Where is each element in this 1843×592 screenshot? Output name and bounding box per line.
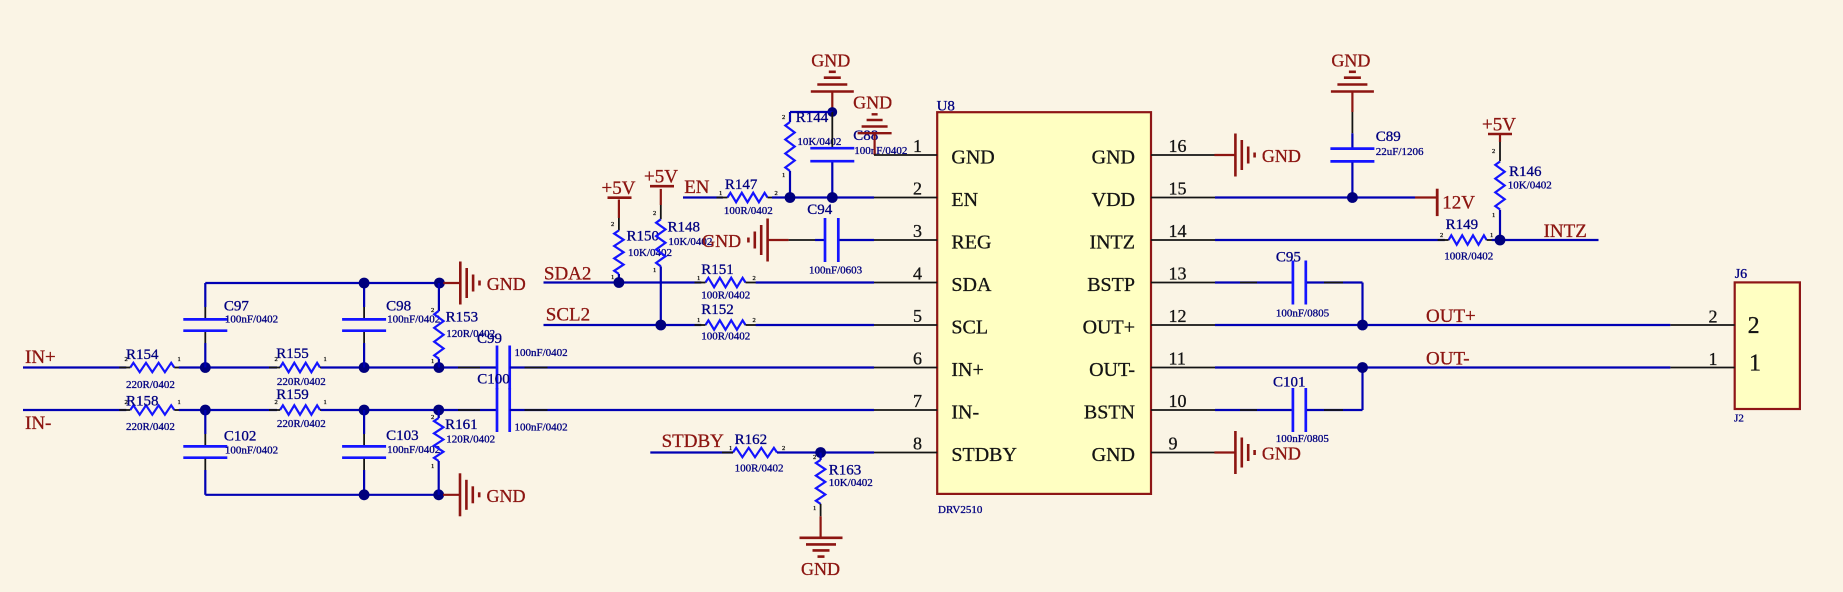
svg-text:R146: R146 xyxy=(1509,164,1542,180)
svg-text:GND: GND xyxy=(487,274,526,294)
wire INTZ right xyxy=(1492,239,1599,241)
svg-text:100R/0402: 100R/0402 xyxy=(701,290,750,302)
wire top rail xyxy=(205,282,439,284)
capacitor C98 xyxy=(363,283,365,307)
svg-text:100nF/0402: 100nF/0402 xyxy=(225,444,278,456)
capacitor C94 xyxy=(789,239,815,241)
svg-text:C102: C102 xyxy=(224,429,257,445)
node bottom rail / R161 / GND xyxy=(433,489,444,500)
node top rail / C98 xyxy=(359,278,370,289)
svg-text:100nF/0402: 100nF/0402 xyxy=(387,314,440,326)
wire BSTN xyxy=(1215,409,1292,411)
svg-text:13: 13 xyxy=(1169,264,1187,284)
svg-text:100nF/0402: 100nF/0402 xyxy=(515,347,568,359)
wire IN- seg3 xyxy=(321,409,497,411)
power +5V for R150 xyxy=(608,196,632,199)
wire INTZ from pin14 xyxy=(1215,239,1445,241)
svg-text:220R/0402: 220R/0402 xyxy=(126,421,175,433)
svg-text:120R/0402: 120R/0402 xyxy=(446,433,495,445)
svg-text:INTZ: INTZ xyxy=(1089,232,1135,254)
svg-text:1: 1 xyxy=(1749,351,1761,377)
ground GND top-rail xyxy=(443,282,460,284)
resistor R155 xyxy=(280,363,320,372)
node OUT- / C101 xyxy=(1357,362,1368,373)
capacitor C101 xyxy=(1292,388,1295,432)
svg-text:R153: R153 xyxy=(446,310,479,326)
svg-text:R154: R154 xyxy=(126,347,159,363)
wire OUT- xyxy=(1215,366,1670,368)
pin 13 BSTP stub xyxy=(1151,282,1215,284)
svg-text:SCL2: SCL2 xyxy=(546,305,590,326)
svg-text:2: 2 xyxy=(753,275,756,282)
ground GND pin1 (small earth) xyxy=(858,132,892,134)
svg-text:10K/0402: 10K/0402 xyxy=(829,477,873,489)
op-amp U8 DRV2510 body xyxy=(937,112,1151,494)
svg-text:J6: J6 xyxy=(1735,267,1747,282)
svg-text:R155: R155 xyxy=(276,346,309,362)
svg-text:100R/0402: 100R/0402 xyxy=(701,330,750,342)
ground GND bottom-rail xyxy=(443,494,460,496)
svg-text:R147: R147 xyxy=(725,177,758,193)
svg-text:STDBY: STDBY xyxy=(951,444,1017,466)
svg-text:GND: GND xyxy=(702,231,741,251)
svg-text:12: 12 xyxy=(1169,306,1187,326)
pin 15 VDD stub xyxy=(1151,197,1215,199)
svg-text:R158: R158 xyxy=(126,394,159,410)
node VDD / C89 xyxy=(1347,192,1358,203)
svg-text:2: 2 xyxy=(125,356,128,363)
pin 14 INTZ stub xyxy=(1151,239,1215,241)
node EN / C88 xyxy=(827,192,838,203)
svg-text:GND: GND xyxy=(1092,147,1135,169)
svg-text:2: 2 xyxy=(431,414,434,421)
svg-text:C95: C95 xyxy=(1276,250,1301,266)
capacitor C88 xyxy=(831,112,833,147)
pin 1 GND stub xyxy=(874,154,937,156)
svg-text:4: 4 xyxy=(913,264,922,284)
svg-text:2: 2 xyxy=(775,190,778,197)
svg-text:R152: R152 xyxy=(701,302,734,318)
svg-text:C101: C101 xyxy=(1273,374,1306,390)
ground GND pin16 xyxy=(1214,154,1235,156)
svg-text:GND: GND xyxy=(951,147,994,169)
wire BSTP xyxy=(1215,281,1292,283)
svg-text:BSTP: BSTP xyxy=(1087,274,1135,296)
svg-text:2: 2 xyxy=(431,307,434,314)
svg-text:2: 2 xyxy=(1748,313,1760,339)
wire IN+ seg3 xyxy=(321,366,497,368)
svg-text:2: 2 xyxy=(1440,232,1443,239)
svg-text:1: 1 xyxy=(324,399,327,406)
ground GND REG (left-pointing) xyxy=(768,239,789,241)
svg-text:+5V: +5V xyxy=(1482,115,1516,136)
resistor R154 xyxy=(130,363,174,372)
svg-text:100nF/0805: 100nF/0805 xyxy=(1276,307,1330,319)
ground GND top (above R144) xyxy=(831,92,833,113)
pin 12 OUT+ stub xyxy=(1151,324,1215,326)
resistor R144 xyxy=(789,112,791,122)
svg-text:1: 1 xyxy=(653,267,656,274)
svg-text:3: 3 xyxy=(913,221,922,241)
svg-text:2: 2 xyxy=(753,317,756,324)
pin 8 STDBY stub xyxy=(874,452,937,454)
capacitor C99 xyxy=(496,346,499,390)
svg-text:1: 1 xyxy=(697,317,700,324)
wire IN- seg2 xyxy=(179,409,277,411)
svg-text:100R/0402: 100R/0402 xyxy=(735,462,784,474)
svg-text:22uF/1206: 22uF/1206 xyxy=(1376,146,1424,158)
svg-text:GND: GND xyxy=(487,486,526,506)
svg-text:2: 2 xyxy=(813,454,816,461)
node R144/C88/GND top xyxy=(827,107,837,117)
svg-text:1: 1 xyxy=(782,172,785,179)
svg-text:OUT+: OUT+ xyxy=(1083,317,1135,339)
svg-text:10: 10 xyxy=(1169,391,1187,411)
svg-text:10K/0402: 10K/0402 xyxy=(797,136,841,148)
svg-text:12V: 12V xyxy=(1442,193,1475,214)
svg-text:OUT-: OUT- xyxy=(1089,359,1135,381)
pin 2 EN stub xyxy=(874,197,937,199)
svg-text:VDD: VDD xyxy=(1092,189,1135,211)
svg-text:GND: GND xyxy=(801,559,840,579)
resistor R159 xyxy=(280,405,320,414)
J6 pin 1 stub xyxy=(1670,367,1734,369)
resistor R161 xyxy=(438,410,440,418)
wire SDA2 xyxy=(544,281,702,283)
pin 9 GND stub xyxy=(1151,452,1215,454)
svg-text:100R/0402: 100R/0402 xyxy=(724,205,773,217)
svg-text:OUT-: OUT- xyxy=(1426,349,1470,370)
svg-text:220R/0402: 220R/0402 xyxy=(277,418,326,430)
node IN+ / R153 / C99 xyxy=(434,362,445,373)
node STDBY / R163 xyxy=(815,447,826,458)
svg-text:14: 14 xyxy=(1169,221,1187,241)
svg-text:6: 6 xyxy=(913,349,922,369)
svg-text:1: 1 xyxy=(178,356,181,363)
svg-text:OUT+: OUT+ xyxy=(1426,306,1476,327)
svg-text:1: 1 xyxy=(431,358,434,365)
resistor R150 xyxy=(618,200,620,219)
svg-text:J2: J2 xyxy=(1734,412,1744,424)
node IN+ / C98 xyxy=(359,362,370,373)
wire IN+ seg2 xyxy=(179,366,277,368)
svg-text:10K/0402: 10K/0402 xyxy=(1508,180,1552,192)
node top rail / R153 / GND xyxy=(434,278,445,289)
svg-text:1: 1 xyxy=(697,275,700,282)
capacitor C97 xyxy=(204,283,206,307)
svg-text:+5V: +5V xyxy=(644,167,678,188)
svg-text:2: 2 xyxy=(1492,148,1495,155)
svg-text:100nF/0402: 100nF/0402 xyxy=(225,314,278,326)
resistor R153 xyxy=(438,283,440,311)
svg-text:100nF/0402: 100nF/0402 xyxy=(515,422,568,434)
capacitor C89 xyxy=(1351,112,1353,133)
svg-text:IN-: IN- xyxy=(25,413,51,434)
svg-text:GND: GND xyxy=(1092,444,1135,466)
wire VDD xyxy=(1215,196,1415,198)
svg-text:8: 8 xyxy=(913,434,922,454)
svg-text:INTZ: INTZ xyxy=(1544,221,1587,242)
resistor R158 xyxy=(130,405,174,414)
svg-text:1: 1 xyxy=(719,190,722,197)
svg-text:2: 2 xyxy=(275,356,278,363)
svg-text:SDA: SDA xyxy=(951,274,992,296)
node IN- / C102 xyxy=(200,405,211,416)
svg-text:GND: GND xyxy=(1262,444,1301,464)
pin 10 BSTN stub xyxy=(1151,409,1215,411)
pin 7 IN- stub xyxy=(874,409,937,411)
capacitor C100 xyxy=(496,388,499,432)
wire IN- left xyxy=(23,409,126,411)
svg-text:2: 2 xyxy=(913,179,922,199)
svg-text:IN+: IN+ xyxy=(25,347,56,368)
wire STDBY seg2 xyxy=(777,451,874,453)
node IN- / C103 xyxy=(359,405,370,416)
pin 4 SDA stub xyxy=(874,282,937,284)
svg-text:9: 9 xyxy=(1169,434,1178,454)
resistor R151 xyxy=(706,278,746,287)
svg-text:C94: C94 xyxy=(807,202,833,218)
svg-text:R159: R159 xyxy=(276,387,309,403)
svg-text:C98: C98 xyxy=(386,299,411,315)
svg-text:11: 11 xyxy=(1169,349,1186,369)
capacitor C102 xyxy=(204,410,206,434)
svg-text:R150: R150 xyxy=(627,229,660,245)
ground GND below R163 xyxy=(800,536,843,539)
svg-text:EN: EN xyxy=(684,177,710,198)
svg-text:R161: R161 xyxy=(445,417,478,433)
svg-text:120R/0402: 120R/0402 xyxy=(446,328,495,340)
svg-text:1: 1 xyxy=(1492,212,1495,219)
wire SDA to pin4 xyxy=(756,281,874,283)
svg-text:2: 2 xyxy=(125,399,128,406)
resistor R152 xyxy=(706,320,746,329)
node SDA2 / R150 xyxy=(614,277,625,288)
resistor R147 xyxy=(728,193,768,202)
wire SCL to pin5 xyxy=(756,324,874,326)
svg-text:2: 2 xyxy=(611,221,614,228)
power 12V xyxy=(1415,196,1437,198)
wire bottom rail xyxy=(205,494,438,496)
svg-text:R144: R144 xyxy=(796,110,829,126)
capacitor C103 xyxy=(363,410,365,434)
svg-text:1: 1 xyxy=(729,445,732,452)
svg-text:1: 1 xyxy=(1490,232,1493,239)
svg-text:2: 2 xyxy=(1709,307,1718,327)
svg-text:IN-: IN- xyxy=(951,402,979,424)
svg-text:16: 16 xyxy=(1169,136,1187,156)
svg-text:EN: EN xyxy=(951,189,978,211)
svg-text:5: 5 xyxy=(913,306,922,326)
J6 pin 2 stub xyxy=(1670,324,1734,326)
resistor R146 xyxy=(1499,135,1501,142)
svg-text:+5V: +5V xyxy=(602,178,636,199)
svg-text:R149: R149 xyxy=(1446,217,1479,233)
node IN+ / C97 xyxy=(200,362,211,373)
resistor R163 xyxy=(819,453,821,461)
svg-text:1: 1 xyxy=(813,505,816,512)
svg-text:1: 1 xyxy=(913,136,922,156)
pin 6 IN+ stub xyxy=(874,367,937,369)
wire R144 top link xyxy=(790,111,832,113)
svg-text:2: 2 xyxy=(782,114,785,121)
pin 5 SCL stub xyxy=(874,324,937,326)
svg-text:100nF/0402: 100nF/0402 xyxy=(387,444,440,456)
svg-text:SDA2: SDA2 xyxy=(544,264,592,285)
svg-text:1: 1 xyxy=(431,463,434,470)
svg-text:100nF/0805: 100nF/0805 xyxy=(1276,433,1330,445)
svg-text:U8: U8 xyxy=(937,98,955,114)
svg-text:1: 1 xyxy=(178,399,181,406)
svg-text:STDBY: STDBY xyxy=(662,431,725,452)
wire EN xyxy=(683,196,723,198)
svg-text:GND: GND xyxy=(853,93,892,113)
svg-text:GND: GND xyxy=(1262,146,1301,166)
svg-text:100nF/0603: 100nF/0603 xyxy=(809,264,863,276)
connector J6 body xyxy=(1735,282,1800,409)
node SCL2 / R148 xyxy=(655,320,666,331)
power +5V for R148 xyxy=(650,185,674,188)
node IN- / R161 / C100 xyxy=(433,405,444,416)
wire EN seg2 xyxy=(772,196,874,198)
svg-text:GND: GND xyxy=(1331,51,1370,71)
wire IN+ to pin6 xyxy=(510,366,874,368)
wire IN+ left xyxy=(23,366,126,368)
svg-text:100R/0402: 100R/0402 xyxy=(1444,251,1493,263)
node EN / R144 xyxy=(785,192,796,203)
ground GND pin9 xyxy=(1214,451,1235,453)
svg-text:C89: C89 xyxy=(1376,129,1401,145)
resistor R149 xyxy=(1449,235,1487,244)
svg-text:R151: R151 xyxy=(701,262,734,278)
wire C95 to OUT+ xyxy=(1307,281,1363,283)
wire SCL2 xyxy=(544,324,702,326)
svg-text:IN+: IN+ xyxy=(951,359,983,381)
pin 16 GND stub xyxy=(1151,154,1215,156)
svg-text:220R/0402: 220R/0402 xyxy=(126,379,175,391)
svg-text:1: 1 xyxy=(611,274,614,281)
wire IN- to pin7 xyxy=(510,409,874,411)
svg-text:1: 1 xyxy=(324,356,327,363)
wire STDBY xyxy=(650,451,733,453)
svg-text:DRV2510: DRV2510 xyxy=(938,504,983,516)
svg-text:SCL: SCL xyxy=(951,317,988,339)
svg-text:15: 15 xyxy=(1169,179,1187,199)
svg-text:R148: R148 xyxy=(668,219,701,235)
wire OUT+ xyxy=(1215,324,1670,326)
node INTZ / R146 xyxy=(1495,235,1506,246)
node bottom rail / C103 xyxy=(359,489,370,500)
svg-text:1: 1 xyxy=(1709,349,1718,369)
resistor R148 xyxy=(660,189,662,205)
svg-text:REG: REG xyxy=(951,232,991,254)
power +5V for R146 xyxy=(1488,133,1512,136)
pin 3 REG stub xyxy=(874,239,937,241)
svg-text:7: 7 xyxy=(913,391,922,411)
ground GND above C89 xyxy=(1351,92,1353,113)
svg-text:C103: C103 xyxy=(386,428,419,444)
pin 11 OUT- stub xyxy=(1151,367,1215,369)
resistor R162 xyxy=(733,448,777,457)
svg-text:GND: GND xyxy=(811,51,850,71)
svg-text:2: 2 xyxy=(275,399,278,406)
svg-text:R162: R162 xyxy=(735,432,768,448)
node OUT+ / C95 xyxy=(1357,320,1368,331)
svg-text:2: 2 xyxy=(782,445,785,452)
svg-text:C97: C97 xyxy=(224,299,250,315)
capacitor C95 xyxy=(1292,261,1295,305)
wire C101 to OUT- xyxy=(1307,409,1363,411)
svg-text:BSTN: BSTN xyxy=(1084,402,1135,424)
svg-text:2: 2 xyxy=(653,210,656,217)
svg-text:C100: C100 xyxy=(477,372,510,388)
